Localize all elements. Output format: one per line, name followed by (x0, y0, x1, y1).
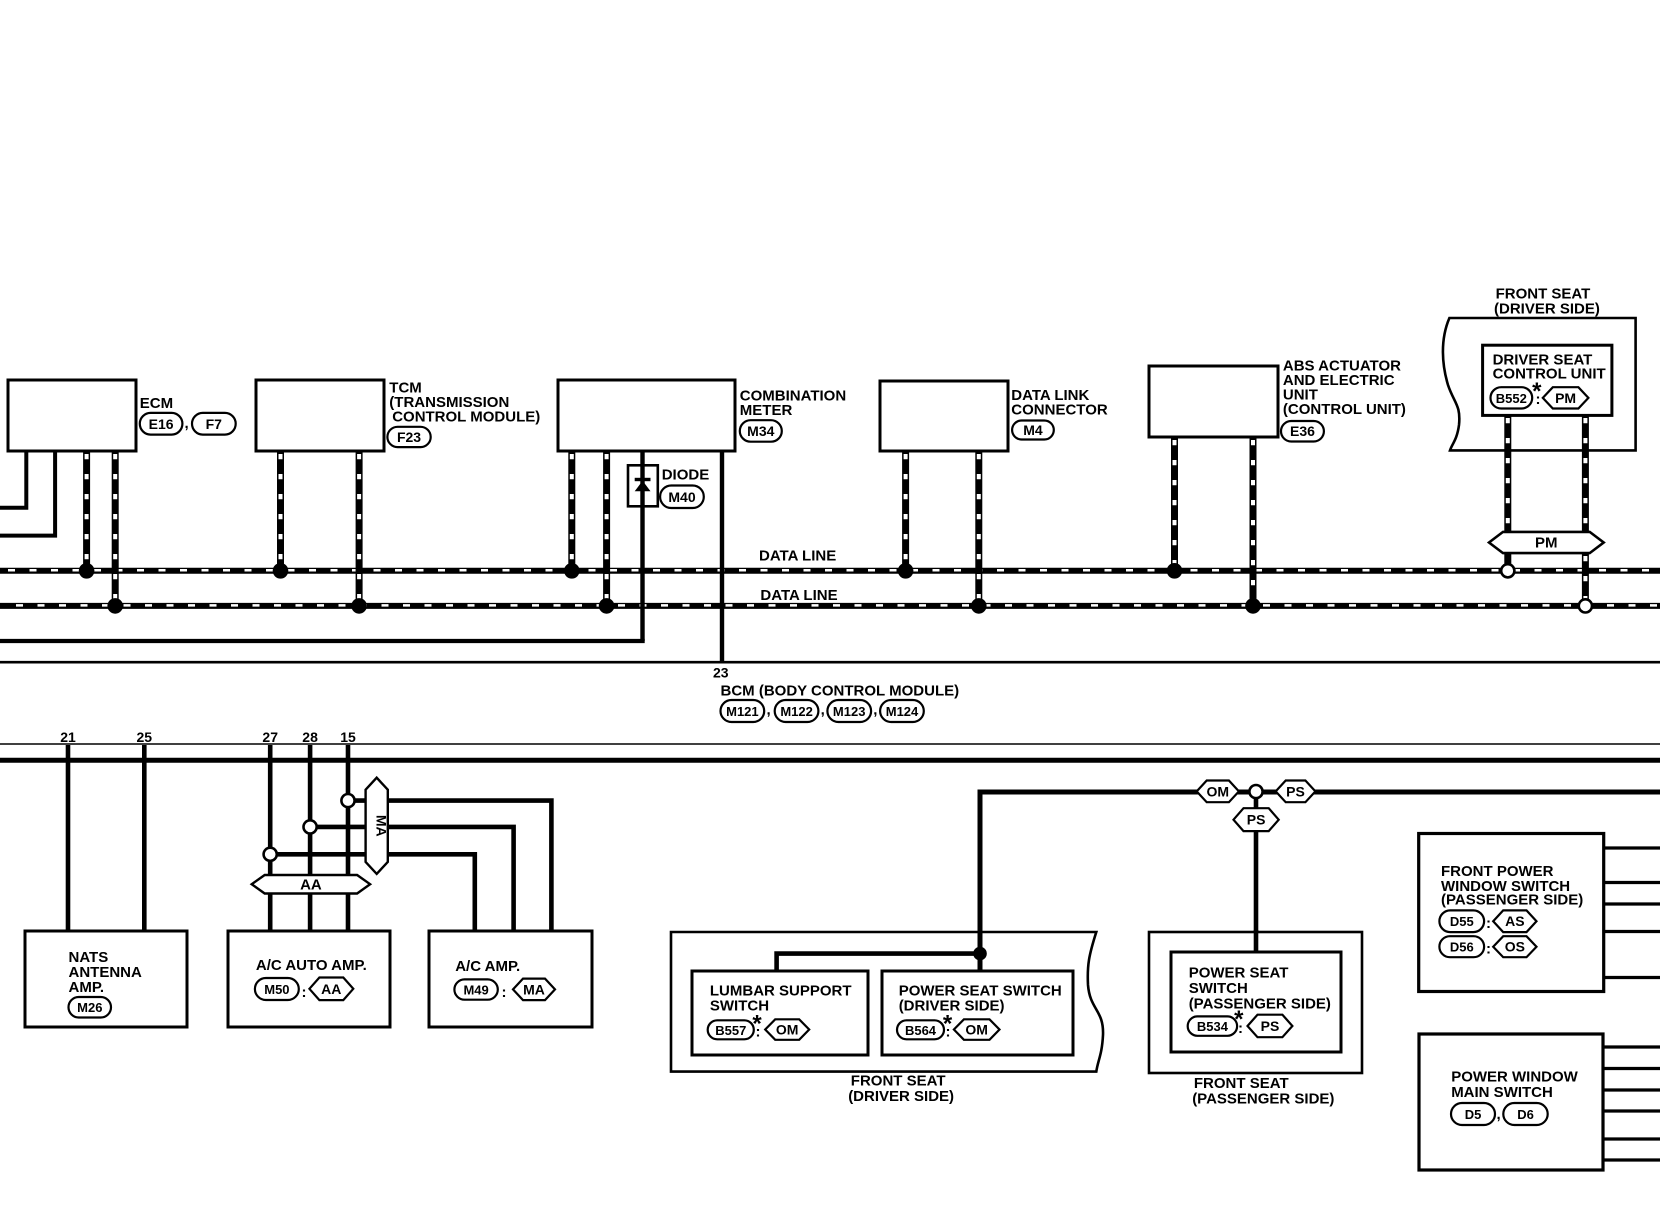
svg-text:15: 15 (340, 729, 356, 745)
svg-text:MA: MA (523, 981, 545, 997)
connector PS (passenger) (1248, 1015, 1293, 1037)
module DRIVER SEAT CONTROL UNIT (1483, 345, 1612, 415)
svg-text:MA: MA (374, 815, 390, 837)
svg-text:METER: METER (740, 402, 793, 419)
svg-text:PM: PM (1535, 535, 1558, 552)
wire PS drop to passenger power seat switch (1254, 798, 1259, 952)
wire ECM pin to left edge (lower) (0, 450, 55, 536)
svg-text:M124: M124 (886, 704, 919, 719)
svg-text::: : (1486, 915, 1491, 932)
svg-text:21: 21 (60, 729, 76, 745)
svg-text:(PASSENGER SIDE): (PASSENGER SIDE) (1441, 892, 1583, 909)
module ABS ACTUATOR AND ELECTRIC UNIT (1149, 366, 1278, 437)
connector M121 (721, 700, 765, 722)
wire power window main switch stub 6 (1603, 1158, 1660, 1161)
svg-text:E16: E16 (149, 416, 174, 432)
wire BCM pin 27 to A/C auto amp (1) (268, 745, 273, 931)
svg-text:28: 28 (302, 729, 318, 745)
label DATA LINK CONNECTOR (1011, 387, 1108, 419)
svg-text:DATA LINE: DATA LINE (760, 587, 837, 604)
module COMBINATION METER (558, 380, 735, 451)
svg-text:D55: D55 (1450, 914, 1474, 929)
svg-text:F7: F7 (206, 416, 223, 432)
svg-text:(CONTROL UNIT): (CONTROL UNIT) (1283, 401, 1406, 418)
svg-text:M50: M50 (264, 982, 289, 997)
svg-text:SWITCH: SWITCH (1189, 980, 1248, 997)
svg-text:CONNECTOR: CONNECTOR (1011, 402, 1108, 419)
connector M49 (454, 979, 497, 999)
wire front power window switch stub 2 (1604, 881, 1660, 884)
wire OM/PS feed from right (980, 792, 1660, 954)
connector OM (power seat) (954, 1019, 1000, 1040)
connector M26 (69, 997, 112, 1018)
connector junction (hollow) PM-left to DATA LINE 1 (1501, 564, 1514, 577)
connector junction (hollow) pin28/branch (304, 820, 317, 833)
svg-text:M34: M34 (747, 423, 774, 439)
connector F23 (387, 427, 430, 447)
wire combination meter pin 23 to BCM (720, 450, 724, 663)
svg-text:DIODE: DIODE (662, 467, 710, 484)
wire branch pin 27 to A/C amp (270, 854, 475, 931)
wire (data/shielded) TCM to DATA LINE 1 (277, 450, 284, 571)
svg-text:(DRIVER SIDE): (DRIVER SIDE) (848, 1088, 954, 1105)
svg-text:A/C AUTO AMP.: A/C AUTO AMP. (256, 957, 367, 974)
svg-text::: : (302, 984, 307, 1001)
wire BCM pin 15 to A/C auto amp (3) (346, 745, 351, 931)
svg-text:OM: OM (965, 1022, 988, 1038)
wire PS into power seat switch passenger (1254, 930, 1259, 952)
svg-text::: : (1486, 941, 1491, 958)
svg-text:25: 25 (137, 729, 153, 745)
module POWER SEAT SWITCH (PASSENGER SIDE) (1171, 952, 1341, 1052)
module A/C AMP. (429, 931, 592, 1027)
svg-text:CONTROL UNIT: CONTROL UNIT (1493, 365, 1606, 382)
connector junction (hollow) pin27/branch (264, 848, 277, 861)
module FRONT POWER WINDOW SWITCH (PASSENGER SIDE) (1419, 834, 1604, 992)
svg-text::: : (502, 984, 507, 1001)
connector B552 (1491, 387, 1533, 408)
svg-text:PM: PM (1555, 390, 1576, 406)
svg-text:M26: M26 (77, 1000, 102, 1015)
wire (data/shielded) ABS unit to DATA LINE 2 (1250, 436, 1257, 606)
wire diode branch to left edge (0, 639, 645, 643)
module POWER WINDOW MAIN SWITCH (1419, 1034, 1603, 1170)
wire branch pin 15 to A/C amp (348, 801, 551, 931)
connector MA (inline) (513, 979, 555, 1001)
svg-text:OM: OM (776, 1022, 799, 1038)
connector M40 (660, 486, 704, 509)
svg-text:,: , (873, 702, 877, 719)
wire power window main switch stub 1 (1603, 1045, 1660, 1048)
svg-text:B552: B552 (1496, 391, 1527, 406)
junction dot ABS/LINE2 (1245, 598, 1261, 614)
svg-text:D5: D5 (1465, 1107, 1482, 1122)
svg-text:(PASSENGER SIDE): (PASSENGER SIDE) (1192, 1090, 1334, 1107)
module LUMBAR SUPPORT SWITCH (692, 971, 868, 1055)
svg-text:M121: M121 (726, 704, 759, 719)
svg-text:M49: M49 (463, 983, 488, 998)
module POWER SEAT SWITCH (DRIVER SIDE) (882, 971, 1073, 1055)
enclosure FRONT SEAT (DRIVER SIDE) with wavy right edge (671, 932, 1103, 1072)
svg-text:B534: B534 (1197, 1019, 1229, 1034)
connector M34 (740, 420, 782, 442)
svg-text::: : (756, 1024, 761, 1041)
wire front power window switch stub 4 (1604, 930, 1660, 933)
module NATS ANTENNA AMP (25, 931, 187, 1027)
svg-text:POWER SEAT: POWER SEAT (1189, 964, 1289, 981)
connector OM (lumbar) (765, 1019, 809, 1040)
enclosure FRONT SEAT (DRIVER SIDE) with wavy left edge (1443, 318, 1636, 450)
wire to power seat switch driver (978, 954, 983, 971)
wire power window main switch stub 3 (1603, 1088, 1660, 1091)
junction dot METER/LINE1 (564, 563, 580, 579)
diode symbol (635, 480, 651, 492)
module A/C AUTO AMP. (228, 931, 390, 1027)
wire BCM bottom edge line (0, 743, 1660, 745)
wire DATA LINE 1 (CAN-H bus) (0, 567, 1660, 574)
connector band MA (vertical) (366, 778, 390, 874)
connector M4 (1012, 421, 1054, 440)
wire branch pin 28 to A/C amp (310, 827, 513, 931)
svg-text:,: , (1497, 1106, 1501, 1123)
connector OS (1493, 936, 1536, 957)
svg-text:,: , (185, 415, 189, 432)
svg-text:B557: B557 (715, 1023, 746, 1038)
wire (data/shielded) COMBINATION METER to DATA LINE 1 (568, 450, 575, 571)
svg-text:BCM (BODY CONTROL MODULE): BCM (BODY CONTROL MODULE) (721, 682, 960, 699)
wire power window main switch stub 5 (1603, 1137, 1660, 1140)
svg-text:CONTROL MODULE): CONTROL MODULE) (392, 408, 540, 425)
wire through diode (640, 465, 644, 506)
svg-text:MAIN SWITCH: MAIN SWITCH (1451, 1084, 1553, 1101)
connector D56 (1439, 936, 1484, 957)
module ECM (8, 380, 136, 451)
label POWER WINDOW MAIN SWITCH (1451, 1068, 1578, 1101)
connector M122 (775, 700, 819, 722)
label FRONT SEAT (DRIVER SIDE) upper (1494, 286, 1600, 318)
wire PM to DATA LINE 1 (1504, 552, 1511, 566)
wire front power window switch stub 5 (1604, 976, 1660, 979)
module DATA LINK CONNECTOR (880, 381, 1008, 451)
svg-text:AMP.: AMP. (69, 979, 105, 996)
junction dot TCM/LINE1 (273, 563, 289, 579)
connector F7 (192, 413, 236, 435)
label POWER SEAT SWITCH (PASSENGER SIDE) (1189, 964, 1331, 1012)
wire front power window switch stub 1 (1604, 846, 1660, 849)
svg-text:FRONT SEAT: FRONT SEAT (851, 1073, 946, 1090)
junction dot DLC/LINE1 (898, 563, 914, 579)
svg-text:PS: PS (1261, 1018, 1280, 1034)
wire power window main switch stub 4 (1603, 1109, 1660, 1112)
junction dot ABS/LINE1 (1167, 563, 1183, 579)
svg-text:ECM: ECM (140, 395, 173, 412)
enclosure FRONT SEAT (PASSENGER SIDE) (1149, 932, 1362, 1073)
svg-text:E36: E36 (1290, 423, 1315, 439)
connector E16 (140, 413, 183, 435)
connector PS (inline feed right) (1276, 781, 1316, 803)
connector D5 (1451, 1103, 1495, 1125)
connector B564 (897, 1020, 944, 1039)
svg-text:AS: AS (1505, 913, 1524, 929)
diode M40 (box) (628, 465, 658, 506)
label FRONT SEAT (DRIVER SIDE) lower (848, 1073, 954, 1106)
svg-text:D56: D56 (1450, 940, 1474, 955)
module TCM (256, 380, 384, 451)
connector PS (drop) (1234, 808, 1279, 831)
svg-text:OM: OM (1207, 783, 1230, 799)
svg-text::: : (1238, 1020, 1243, 1037)
svg-text:,: , (767, 702, 771, 719)
connector D6 (1503, 1103, 1547, 1125)
svg-text:POWER WINDOW: POWER WINDOW (1451, 1068, 1578, 1085)
svg-text:PS: PS (1286, 783, 1305, 799)
connector junction (hollow) feed split (1249, 785, 1262, 798)
wire (data/shielded) TCM to DATA LINE 2 (356, 450, 363, 606)
svg-text:AA: AA (321, 981, 341, 997)
svg-text:M122: M122 (780, 704, 813, 719)
wire BCM pin 21 to NATS antenna amp (66, 745, 71, 931)
wire ECM pin to left edge (upper) (0, 450, 26, 508)
svg-text:A/C AMP.: A/C AMP. (455, 958, 520, 975)
svg-text:(PASSENGER SIDE): (PASSENGER SIDE) (1189, 995, 1331, 1012)
connector E36 (1281, 421, 1324, 442)
svg-text:27: 27 (262, 729, 278, 745)
label FRONT POWER WINDOW SWITCH (PASSENGER SIDE) (1441, 863, 1583, 908)
svg-text:D6: D6 (1517, 1107, 1534, 1122)
connector B534 (1188, 1016, 1237, 1035)
label COMBINATION METER (740, 388, 846, 419)
connector junction (hollow) pin15/branch (341, 794, 354, 807)
svg-text:M4: M4 (1023, 422, 1043, 438)
connector band PM (1489, 532, 1604, 553)
junction dot DLC/LINE2 (971, 598, 987, 614)
label LUMBAR SUPPORT SWITCH (710, 983, 852, 1015)
wire (data/shielded) ECM to DATA LINE 2 (112, 450, 119, 606)
junction dot ECM/LINE1 (79, 563, 95, 579)
wire (data/shielded) DATA LINK CONNECTOR to DATA LINE 1 (902, 450, 909, 571)
svg-text:M123: M123 (833, 704, 866, 719)
svg-text:M40: M40 (668, 489, 695, 505)
label POWER SEAT SWITCH (DRIVER SIDE) (899, 983, 1062, 1015)
svg-text:B564: B564 (905, 1023, 937, 1038)
wire (data/shielded) driver seat control unit to PM connector (right) (1582, 414, 1589, 533)
junction dot TCM/LINE2 (351, 598, 367, 614)
connector OM (inline feed) (1197, 781, 1239, 803)
junction dot front seat driver branch (973, 947, 987, 961)
wire BCM pin 28 to A/C auto amp (2) (308, 745, 313, 931)
label FRONT SEAT (PASSENGER SIDE) lower (1192, 1075, 1334, 1107)
svg-text:DATA LINE: DATA LINE (759, 548, 836, 565)
connector junction (hollow) PM-right to DATA LINE 2 (1579, 599, 1592, 612)
svg-text:,: , (821, 702, 825, 719)
wire (data/shielded) ABS unit to DATA LINE 1 (1171, 436, 1178, 571)
svg-text::: : (946, 1024, 951, 1041)
label ABS ACTUATOR AND ELECTRIC UNIT (CONTROL UNIT) (1283, 357, 1406, 418)
svg-text:23: 23 (713, 664, 729, 680)
svg-text:OS: OS (1505, 939, 1525, 955)
connector AA (inline) (309, 978, 353, 1001)
svg-text:(DRIVER SIDE): (DRIVER SIDE) (1494, 300, 1600, 317)
connector D55 (1439, 910, 1484, 932)
connector M50 (255, 978, 299, 1000)
connector M124 (880, 700, 924, 722)
wire (data/shielded) PM to DATA LINE 2 (1582, 552, 1589, 601)
svg-text:AA: AA (300, 877, 322, 894)
junction dot ECM/LINE2 (107, 598, 123, 614)
wire (data/shielded) ECM to DATA LINE 1 (83, 450, 90, 571)
wire BCM pin 25 to NATS antenna amp (142, 745, 147, 931)
junction dot METER/LINE2 (599, 598, 615, 614)
label TCM (TRANSMISSION CONTROL MODULE) (389, 380, 540, 426)
label DRIVER SEAT CONTROL UNIT (1493, 352, 1606, 383)
connector band AA (252, 875, 370, 894)
svg-text:F23: F23 (397, 429, 421, 445)
wire DATA LINE 2 (CAN-L bus) (0, 602, 1660, 609)
wire heavy separator bus (0, 758, 1660, 763)
wire BCM top edge line (0, 661, 1660, 664)
wire branch to lumbar support switch (777, 954, 980, 971)
svg-text:PS: PS (1247, 812, 1266, 828)
connector AS (1493, 910, 1536, 932)
label NATS ANTENNA AMP. (69, 949, 142, 996)
svg-text::: : (1536, 391, 1541, 408)
wire (data/shielded) COMBINATION METER to DATA LINE 2 (603, 450, 610, 606)
wire combination meter through diode to left edge (640, 450, 644, 641)
wire (data/shielded) driver seat control unit to PM connector (left) (1504, 414, 1511, 533)
wire power window main switch stub 2 (1603, 1067, 1660, 1070)
wire front power window switch stub 3 (1604, 902, 1660, 905)
wire (data/shielded) DATA LINK CONNECTOR to DATA LINE 2 (975, 450, 982, 606)
connector PM (inline) (1543, 387, 1589, 408)
connector B557 (708, 1020, 754, 1039)
connector M123 (827, 700, 871, 722)
